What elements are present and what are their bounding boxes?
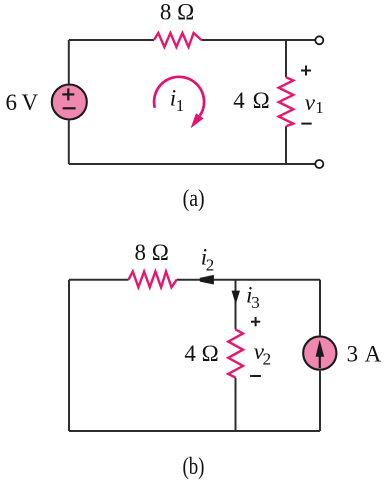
svg-text:8 Ω: 8 Ω bbox=[135, 240, 169, 265]
svg-text:3 A: 3 A bbox=[347, 342, 382, 367]
svg-text:v: v bbox=[305, 90, 316, 115]
svg-text:(a): (a) bbox=[183, 186, 205, 212]
svg-text:2: 2 bbox=[263, 349, 272, 368]
svg-text:6 V: 6 V bbox=[6, 90, 39, 115]
svg-text:(b): (b) bbox=[182, 454, 204, 480]
svg-text:8 Ω: 8 Ω bbox=[160, 0, 194, 24]
svg-text:4 Ω: 4 Ω bbox=[233, 88, 269, 113]
svg-text:4 Ω: 4 Ω bbox=[184, 341, 218, 366]
svg-text:1: 1 bbox=[315, 98, 324, 117]
svg-text:1: 1 bbox=[176, 96, 185, 115]
svg-text:2: 2 bbox=[206, 255, 215, 274]
svg-text:3: 3 bbox=[251, 293, 259, 312]
